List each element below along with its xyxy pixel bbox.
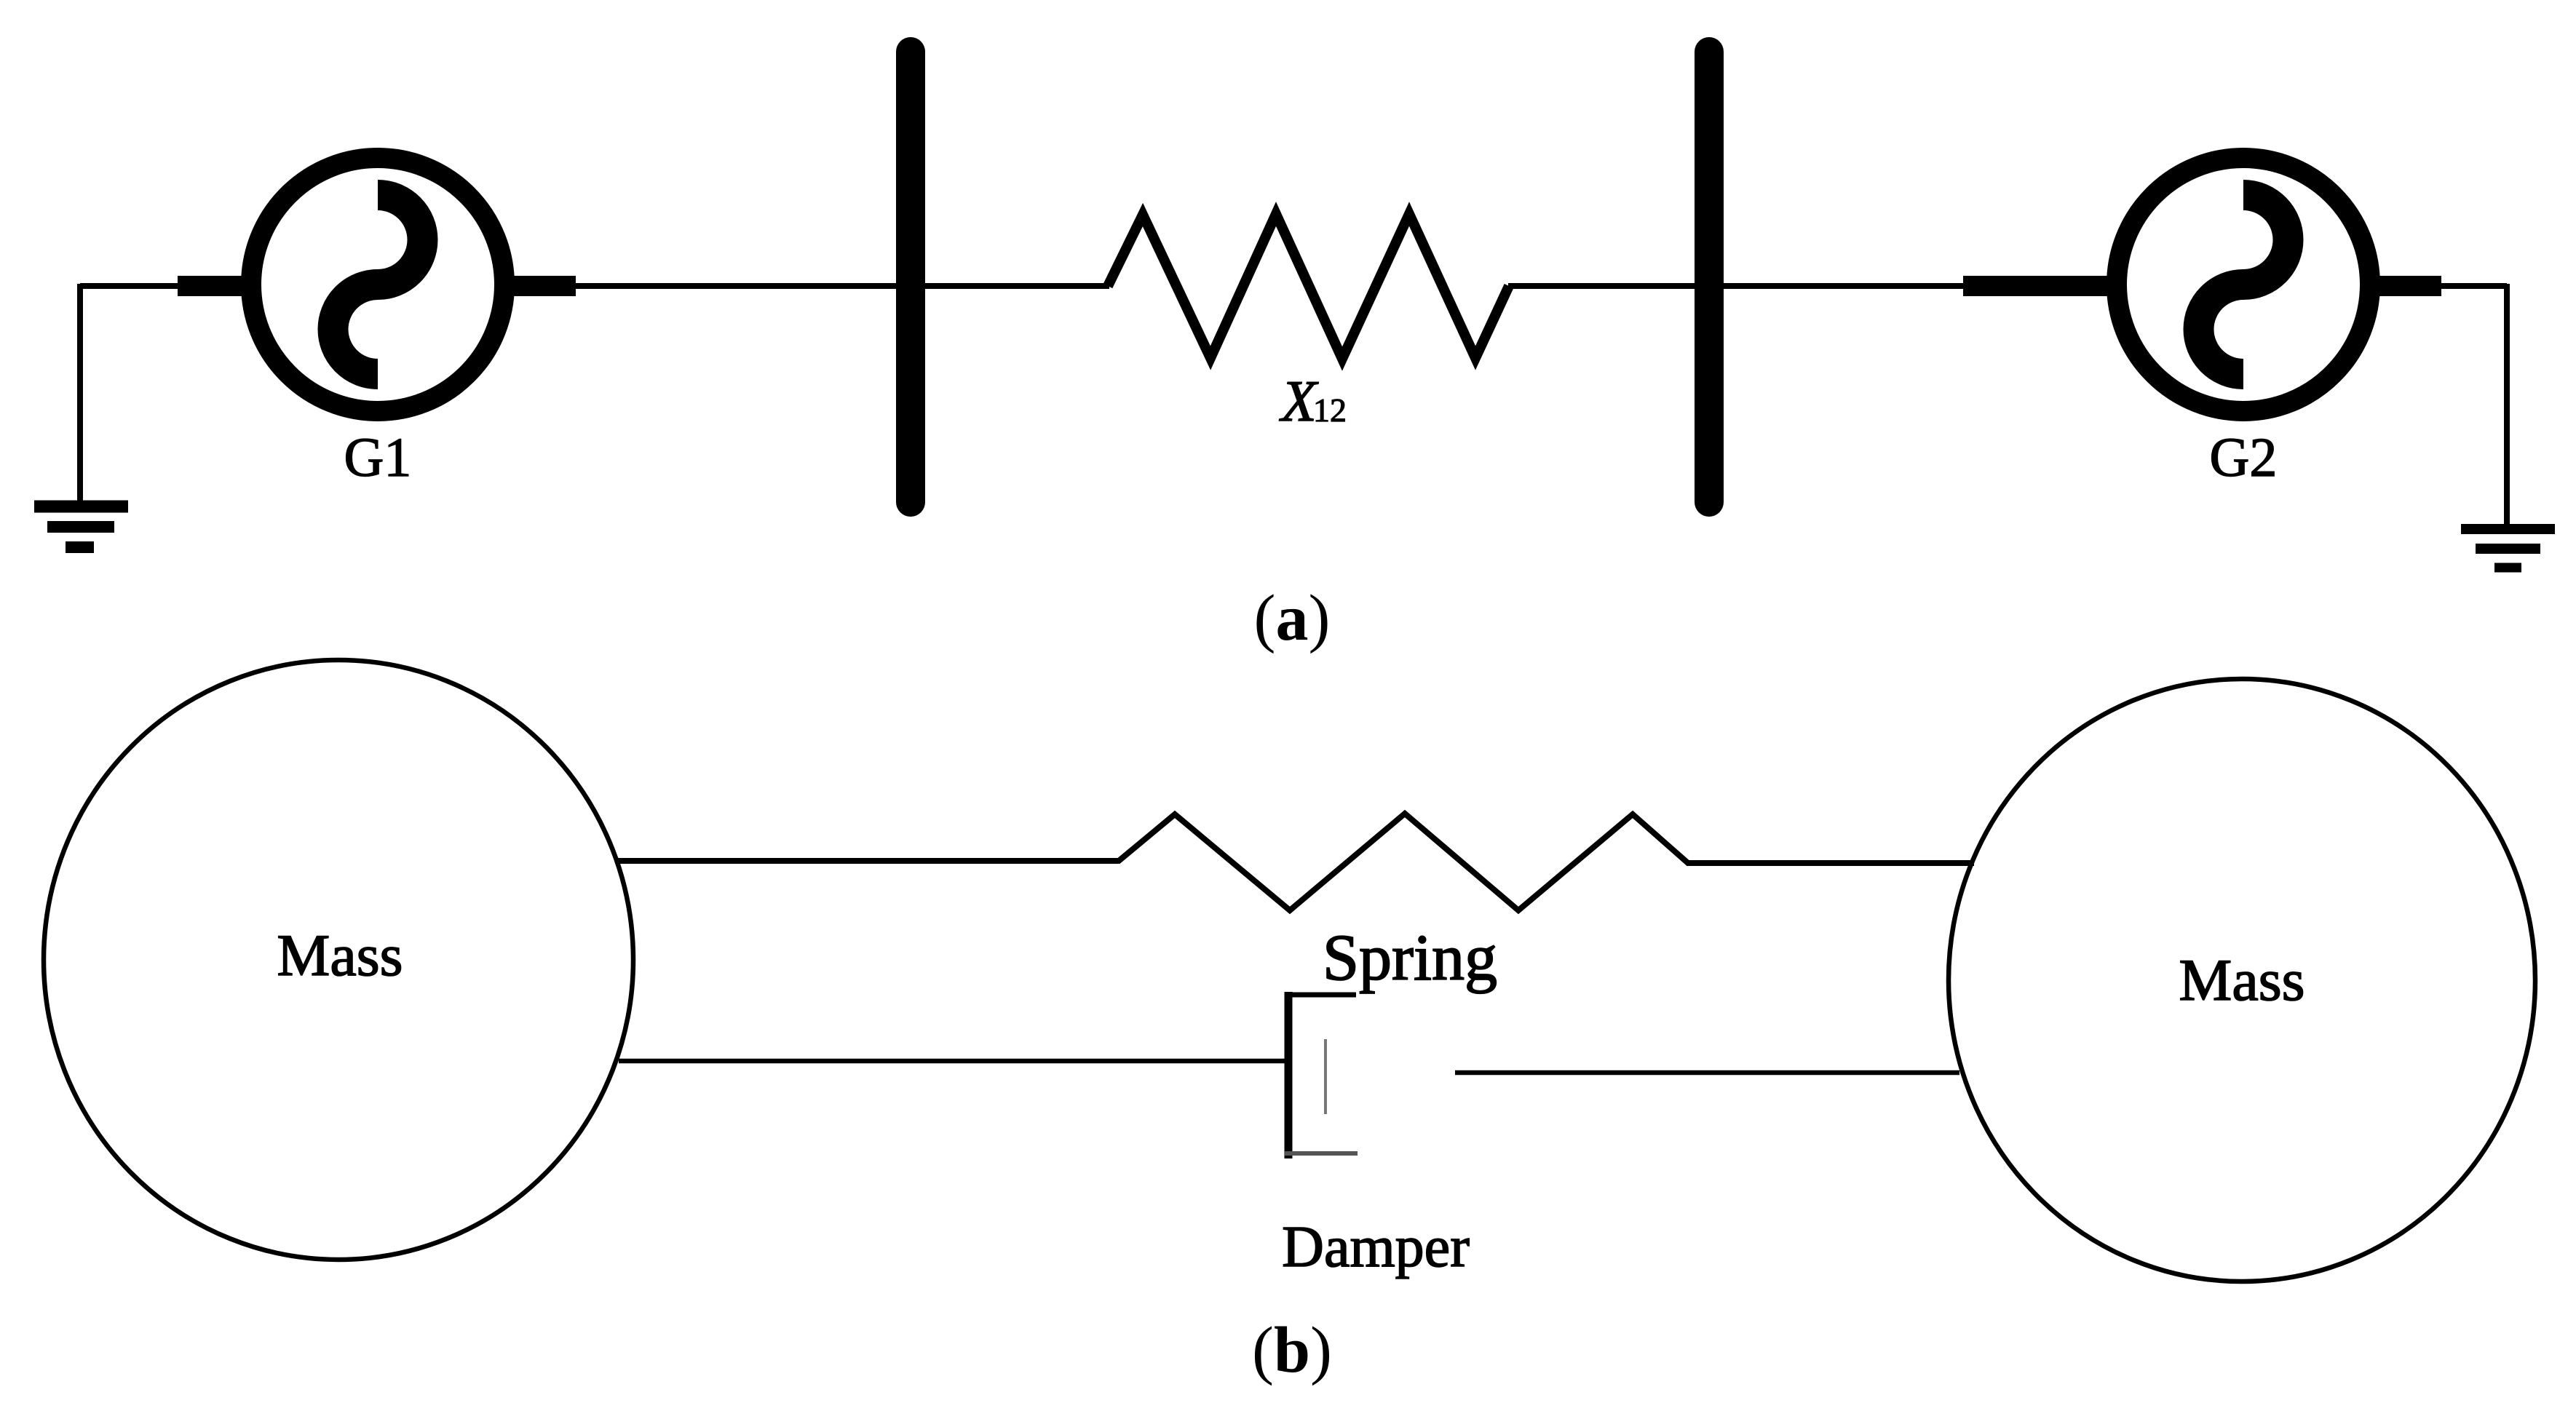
svg-text:Damper: Damper: [1282, 1215, 1470, 1279]
svg-text:Mass: Mass: [277, 922, 403, 988]
svg-text:Spring: Spring: [1323, 922, 1497, 994]
svg-text:(a): (a): [1254, 582, 1331, 654]
svg-text:12: 12: [1313, 392, 1347, 429]
svg-text:Mass: Mass: [2179, 947, 2304, 1013]
svg-text:G1: G1: [344, 427, 412, 488]
svg-text:G2: G2: [2210, 427, 2278, 488]
svg-text:(b): (b): [1252, 1314, 1332, 1386]
